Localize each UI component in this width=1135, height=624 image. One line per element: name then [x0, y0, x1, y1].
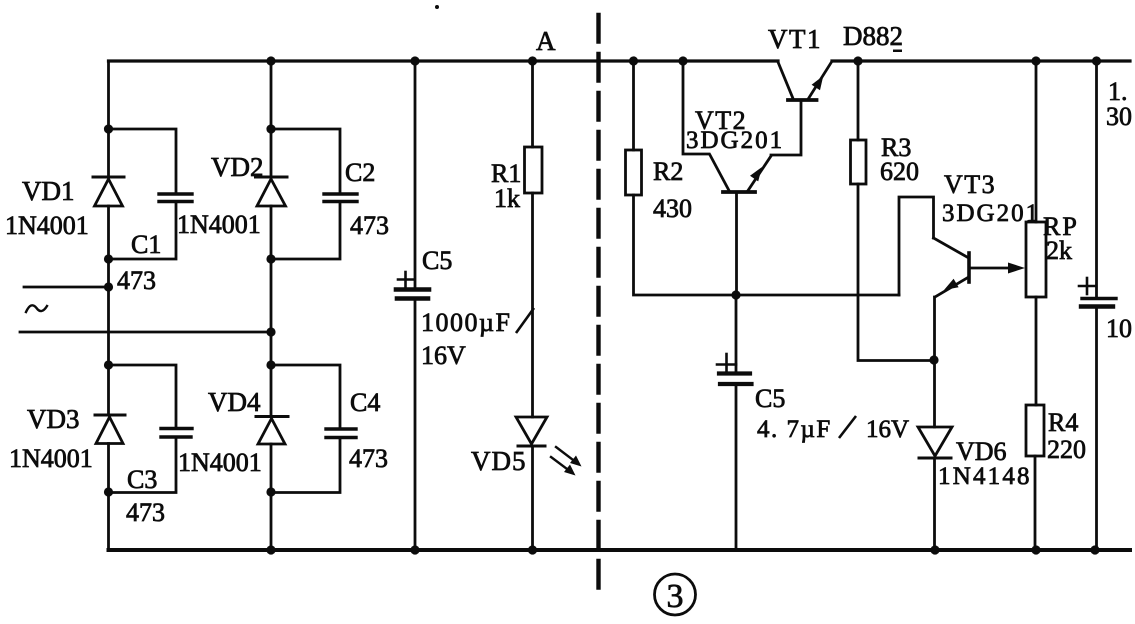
capacitor C5 1000uF/16V: [396, 272, 429, 299]
diode VD3 1N4001: [95, 415, 125, 444]
svg-text:2k: 2k: [1046, 236, 1072, 265]
svg-text:C1: C1: [131, 230, 161, 259]
node: bottom bus junction output cap: [1090, 545, 1099, 554]
node: AC upper junction: [104, 282, 113, 291]
svg-text:VT1: VT1: [768, 24, 822, 54]
node: bottom bus junction VD5: [528, 545, 537, 554]
svg-text:3: 3: [667, 578, 684, 615]
node: VD1-C1 top junction: [104, 124, 113, 133]
diode VD6 1N4148: [918, 427, 952, 458]
wire: top bus right segment (VT1 emitter to output): [832, 59, 1130, 62]
wire: VT2 collector lead: [683, 61, 709, 154]
node: bottom bus junction R4: [1031, 545, 1040, 554]
wire: C4 branch top: [271, 365, 340, 429]
capacitor C2 473: [324, 194, 357, 202]
svg-text:10: 10: [1106, 314, 1132, 343]
svg-text:C2: C2: [345, 158, 375, 187]
node: top bus junction VD2: [266, 56, 275, 65]
svg-text:430: 430: [653, 194, 692, 223]
svg-text:C3: C3: [127, 465, 157, 494]
wire: VT3 emitter lead down: [933, 297, 936, 427]
node: VD4-C4 top junction: [266, 360, 275, 369]
wire: left column middle (VD1 to VD3): [107, 206, 110, 415]
figure number circled 3: [655, 574, 696, 615]
wire: RP bottom to R4: [1035, 297, 1038, 405]
node: top bus junction R2: [629, 56, 638, 65]
node: VD1-C1 bottom junction: [104, 254, 113, 263]
node: bottom bus junction C5: [410, 545, 419, 554]
node: R3-VT3 emitter junction: [929, 355, 938, 364]
node: base bus junction C5b: [731, 290, 740, 299]
wire: VD5 bottom lead: [531, 446, 534, 550]
svg-text:VD2: VD2: [211, 152, 264, 182]
node: top bus junction RP: [1031, 56, 1040, 65]
diode VD1 1N4001: [93, 177, 124, 206]
node: bottom bus junction VD4: [266, 545, 275, 554]
wire: C5b top lead: [735, 295, 738, 373]
capacitor C4 473: [326, 429, 356, 438]
wire: VT2 emitter to VT1 base: [771, 100, 801, 155]
wire: R4 bottom lead: [1034, 456, 1037, 550]
svg-text:1N4148: 1N4148: [938, 463, 1032, 490]
wire: bottom bus (common rail): [109, 548, 1131, 552]
node: top bus junction output cap: [1092, 56, 1101, 65]
wire: AC input lower: [20, 331, 271, 334]
wire: VT2 base lead: [735, 192, 738, 295]
node: VD4-C4 bottom junction: [266, 487, 275, 496]
svg-text:16V: 16V: [866, 416, 909, 443]
svg-text:1N4001: 1N4001: [5, 211, 89, 240]
svg-text:1k: 1k: [494, 184, 520, 213]
svg-text:473: 473: [349, 444, 388, 473]
svg-text:473: 473: [126, 498, 165, 527]
node: VD3-C3 top junction: [104, 360, 113, 369]
node: VD2-C2 bottom junction: [266, 254, 275, 263]
slash (4.7uF/16V): [839, 416, 856, 438]
resistor R4 220: [1026, 405, 1044, 456]
svg-text:1000µF: 1000µF: [421, 308, 511, 337]
svg-text:220: 220: [1047, 435, 1086, 464]
svg-text:3DG201: 3DG201: [942, 200, 1040, 227]
wire: C5 electrolytic top lead: [414, 61, 417, 288]
svg-text:VD4: VD4: [208, 387, 261, 417]
svg-text:620: 620: [880, 157, 919, 186]
svg-text:R4: R4: [1048, 408, 1078, 437]
capacitor C3 473: [161, 429, 192, 438]
wire: C3 branch bottom: [109, 437, 177, 493]
wire: output capacitor top lead: [1095, 61, 1098, 297]
scan speck top: [435, 5, 439, 9]
svg-text:VT3: VT3: [944, 170, 996, 199]
wire: C5 electrolytic bottom lead: [414, 300, 417, 550]
wire: R3 top lead: [857, 61, 860, 140]
wire: C1 branch bottom: [109, 202, 177, 260]
wire: R1 top lead: [531, 61, 534, 147]
svg-text:VD5: VD5: [471, 446, 527, 476]
resistor R3 620: [851, 140, 867, 184]
svg-text:C5: C5: [755, 384, 785, 413]
capacitor output electrolytic: [1079, 278, 1116, 307]
slash (1000uF/16V): [516, 308, 534, 333]
LED VD5: [516, 417, 582, 476]
wire: C3 branch top: [109, 365, 177, 429]
node A junction: [528, 56, 537, 65]
dashed separator line: [596, 15, 600, 588]
wire: C5b bottom lead: [735, 384, 738, 550]
svg-text:C4: C4: [350, 388, 380, 417]
svg-text:30: 30: [1106, 102, 1132, 131]
node: top bus junction C5: [410, 56, 419, 65]
svg-text:473: 473: [350, 211, 389, 240]
wire: base bus to VT3 collector jog: [736, 294, 899, 297]
wire: left column lower (VD3 to bottom bus): [107, 444, 110, 551]
svg-text:1N4001: 1N4001: [9, 444, 93, 473]
wire: mid column middle (VD2 to VD4): [270, 206, 273, 417]
node: AC lower junction: [266, 327, 275, 336]
wire: R1 bottom to VD5: [531, 193, 534, 417]
wire: AC input upper: [24, 286, 109, 289]
svg-text:C5: C5: [422, 246, 452, 275]
svg-text:4. 7µF: 4. 7µF: [757, 416, 832, 443]
svg-text:VD6: VD6: [956, 437, 1007, 466]
wire: left column upper (top bus to VD1): [107, 61, 110, 177]
wire: RP top lead: [1035, 61, 1038, 222]
scan speck near D882: [893, 50, 902, 53]
diode VD4 1N4001: [256, 417, 288, 445]
wire: top bus left segment (rectifier output to VT1 collector): [109, 59, 779, 62]
diode VD2 1N4001: [256, 177, 288, 206]
wire: mid column lower (VD4 to bottom bus): [270, 444, 273, 550]
potentiometer RP 2k: [1026, 222, 1046, 297]
AC source symbol ~: [26, 305, 47, 312]
wire: R2 top lead: [632, 61, 635, 150]
transistor VT3 3DG201: [934, 238, 970, 297]
transistor VT2 3DG201: [710, 155, 771, 192]
resistor R1 1k: [525, 147, 543, 193]
svg-text:1N4001: 1N4001: [177, 210, 261, 239]
wire: mid column upper (top bus to VD2): [270, 61, 273, 177]
node: top bus junction VT2 collector: [678, 56, 687, 65]
svg-text:A: A: [536, 26, 556, 56]
svg-text:VD1: VD1: [22, 176, 75, 206]
wire: C2 branch bottom: [271, 202, 340, 260]
capacitor C1 473: [159, 194, 192, 202]
capacitor C5 4.7uF/16V: [717, 354, 752, 384]
wire: C2 branch top: [271, 129, 340, 194]
wire: C1 branch top: [109, 129, 177, 194]
svg-text:D882: D882: [843, 21, 903, 51]
svg-text:3DG201: 3DG201: [686, 127, 784, 154]
wire: VT3 base to RP wiper: [970, 263, 1025, 274]
node: top bus junction R3: [853, 56, 862, 65]
node: VD2-C2 top junction: [266, 124, 275, 133]
resistor R2 430: [626, 150, 642, 195]
wire: VT3 collector jog: [899, 197, 934, 295]
wire: R2 bottom lead to base bus: [634, 195, 737, 295]
wire: C4 branch bottom: [271, 438, 340, 493]
svg-text:R2: R2: [653, 157, 683, 186]
wire: output capacitor bottom lead: [1095, 306, 1098, 550]
svg-text:16V: 16V: [421, 341, 466, 370]
wire: R3 bottom lead to VT3 emitter node: [858, 184, 934, 361]
transistor VT1 D882: [778, 62, 832, 100]
svg-text:VD3: VD3: [27, 404, 80, 434]
wire: VD6 bottom lead: [933, 458, 936, 550]
node: VD3-C3 bottom junction: [104, 487, 113, 496]
svg-text:473: 473: [117, 266, 156, 295]
svg-text:1N4001: 1N4001: [178, 448, 262, 477]
node: bottom bus junction VD6: [930, 545, 939, 554]
